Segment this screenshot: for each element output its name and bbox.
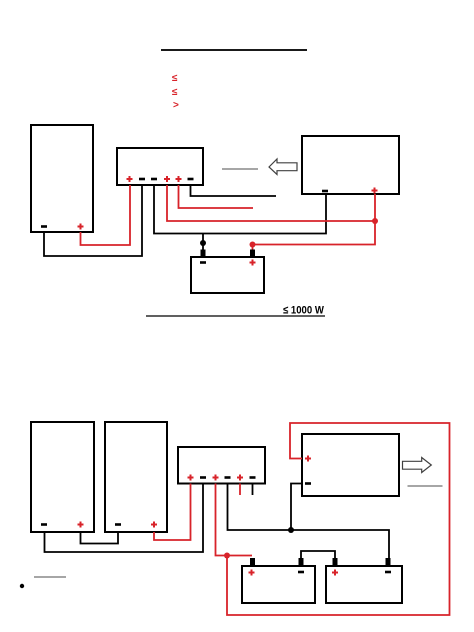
svg-text:≤: ≤ [172,87,178,98]
svg-text:>: > [173,100,179,111]
svg-text:≤ 1000 W: ≤ 1000 W [283,305,324,317]
svg-text:≤: ≤ [172,73,178,84]
